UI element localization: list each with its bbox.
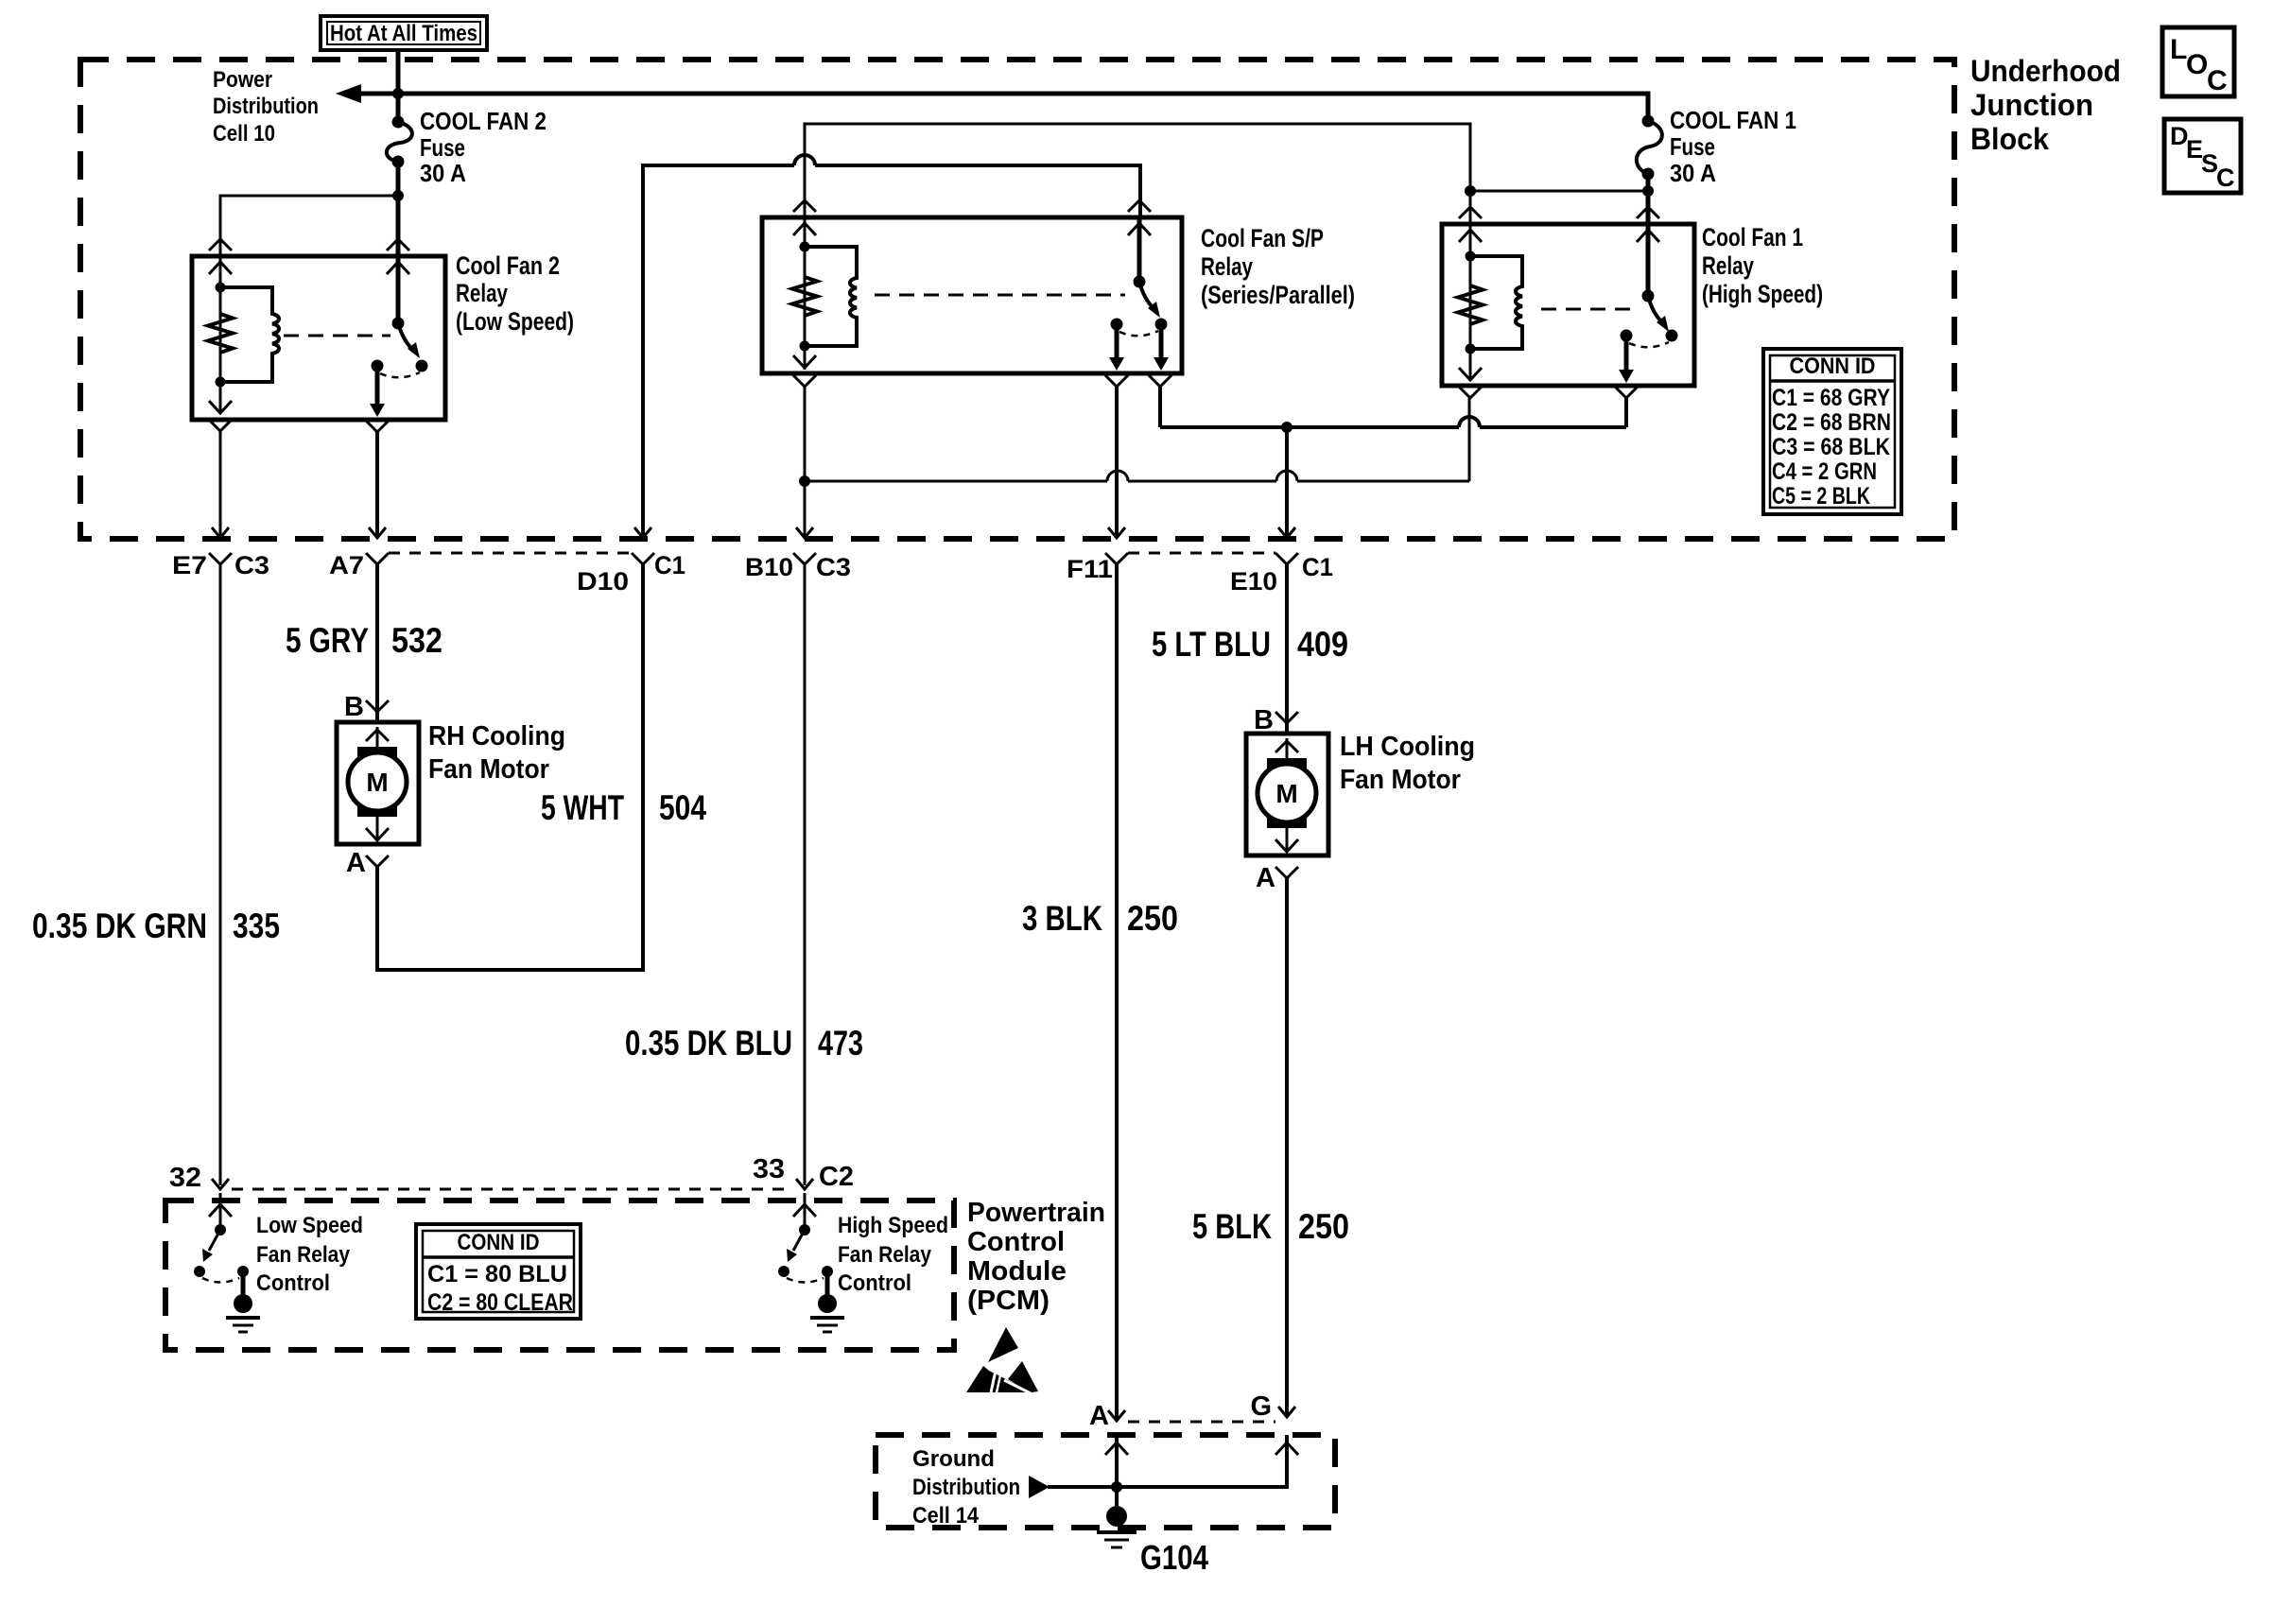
node: PCM high switch open contact	[778, 1266, 789, 1277]
connector glyph below relay1 switch output	[1615, 387, 1638, 398]
wire: B10 run to PCM pin 33	[804, 564, 807, 1185]
switch arm S/P	[1139, 282, 1154, 309]
node: junction dot at hot feed and bus	[392, 88, 404, 99]
pin arrow inside relay2 switch input	[387, 262, 409, 274]
wire: E10 drop from bus A to block edge	[1285, 427, 1289, 536]
dashed throw arc PCM low	[202, 1278, 239, 1283]
ground: PCM low speed internal ground	[226, 1294, 260, 1332]
fuse F1: COOL FAN 1 Fuse 30 A	[1637, 115, 1662, 181]
motor M1: RH Cooling Fan Motor	[337, 722, 419, 844]
svg-text:504: 504	[659, 788, 706, 827]
pin arrow inside ground box A	[1105, 1443, 1128, 1455]
svg-text:C2 = 80 CLEAR: C2 = 80 CLEAR	[427, 1289, 573, 1316]
wire: S/P switch common inside	[1137, 217, 1142, 282]
svg-text:A: A	[1089, 1401, 1109, 1431]
svg-text:E10: E10	[1230, 567, 1277, 596]
svg-text:COOL FAN 2: COOL FAN 2	[420, 107, 547, 135]
switch arm PCM high speed driver	[793, 1230, 805, 1251]
connector dashed line pin A to pin G	[1128, 1421, 1275, 1424]
svg-text:Control: Control	[967, 1227, 1065, 1257]
svg-text:(High Speed): (High Speed)	[1702, 280, 1823, 308]
svg-text:D10: D10	[577, 567, 629, 596]
switch arm arrowhead relay1	[1657, 316, 1669, 332]
svg-text:409: 409	[1297, 625, 1348, 664]
wire: S/P right output with arrow	[1159, 324, 1164, 360]
node: bus B junction at B10	[799, 475, 810, 487]
svg-text:Block: Block	[1970, 122, 2049, 156]
svg-text:M: M	[1275, 779, 1297, 808]
switch arm arrowhead relay2	[408, 342, 420, 358]
svg-text:5 LT BLU: 5 LT BLU	[1152, 625, 1271, 664]
node: relay1 switch pivot	[1642, 290, 1655, 302]
connector glyph at RH motor A	[366, 855, 389, 867]
svg-text:Junction: Junction	[1970, 88, 2093, 122]
node: relay1 output contact	[1621, 330, 1633, 342]
legend box LOC	[2162, 27, 2234, 96]
pin arrow inside relay2 coil output	[209, 401, 232, 413]
wire: RH motor A loop to D10	[377, 564, 643, 970]
wire hop: bus B over F11	[1107, 471, 1128, 481]
svg-text:C2: C2	[819, 1162, 854, 1192]
svg-text:Hot At All Times: Hot At All Times	[330, 21, 477, 46]
svg-text:473: 473	[818, 1024, 863, 1063]
arrowhead at block edge F11	[1108, 527, 1125, 538]
connector glyph above S/P coil pin	[793, 200, 816, 212]
ground G104 symbol	[1097, 1506, 1136, 1547]
dashed throw arc S/P	[1119, 331, 1158, 336]
arrowhead at block edge E7	[212, 527, 229, 538]
wire: PCM low ground stem	[241, 1271, 246, 1297]
svg-text:C3 = 68 BLK: C3 = 68 BLK	[1772, 434, 1890, 460]
wire: fuse 2 output down to relay	[396, 162, 401, 256]
wire: power distribution bus y=103 to COOL FAN 1 fuse	[343, 94, 1648, 119]
svg-text:(PCM): (PCM)	[967, 1286, 1050, 1316]
wire: S/P coil branch inside	[804, 217, 807, 370]
connector glyph above relay2 switch pin	[387, 239, 409, 251]
legend table: CONN ID underhood	[1763, 349, 1901, 514]
wire: E10 to LH motor terminal B	[1285, 564, 1289, 734]
arrowhead at ground pin G	[1278, 1407, 1295, 1417]
svg-text:A: A	[1256, 863, 1275, 893]
resistor: S/P coil suppression resistor	[792, 277, 817, 316]
wire: PCM high ground stem	[825, 1271, 830, 1297]
svg-text:CONN ID: CONN ID	[1790, 354, 1876, 379]
svg-text:M: M	[366, 768, 388, 797]
svg-text:Distribution: Distribution	[912, 1475, 1020, 1500]
power flag: Hot At All Times box	[321, 16, 487, 50]
bus A: S/P output to relay1 output	[1160, 425, 1626, 429]
svg-text:RH Cooling: RH Cooling	[428, 721, 565, 752]
connector dashed line A7 to D10	[389, 552, 632, 555]
wire: S/P left output with arrow	[1115, 324, 1119, 360]
dashed actuator link S/P	[875, 294, 1125, 297]
arrowhead at block edge A7	[369, 527, 386, 538]
arrow from Ground Distribution Cell 14	[1029, 1476, 1050, 1498]
svg-text:Cell 10: Cell 10	[213, 121, 275, 147]
svg-text:C1 = 80 BLU: C1 = 80 BLU	[427, 1261, 567, 1287]
wire hop: rail y=175 hops over S/P coil wire	[794, 155, 815, 165]
pin arrow inside PCM pin 33	[793, 1204, 816, 1217]
svg-text:30 A: 30 A	[1670, 159, 1716, 187]
svg-text:G: G	[1250, 1391, 1272, 1422]
connector glyph above S/P switch pin	[1128, 200, 1151, 212]
svg-text:C2 = 68 BRN: C2 = 68 BRN	[1772, 409, 1891, 436]
wire: ground G stem and crossbar	[1048, 1435, 1287, 1487]
fuse F2: COOL FAN 2 Fuse 30 A	[387, 116, 412, 168]
switch arm arrowhead S/P	[1148, 302, 1160, 318]
wire: B10 drop from S/P coil to block edge	[804, 387, 807, 536]
connector glyph A7 below block	[366, 553, 389, 564]
wire: A7 drop from relay2 switch to block edge	[375, 432, 379, 536]
node: PCM high speed switch pivot	[799, 1224, 810, 1235]
connector glyph at LH motor B	[1275, 712, 1298, 723]
switch arm arrowhead PCM high	[787, 1249, 797, 1262]
svg-text:Cool Fan S/P: Cool Fan S/P	[1201, 224, 1324, 252]
arrowhead at PCM pin 33	[796, 1179, 813, 1189]
resistor: relay2 coil suppression resistor	[208, 314, 233, 353]
svg-text:5 GRY: 5 GRY	[286, 621, 369, 660]
wire hop: bus B over E10	[1276, 471, 1297, 481]
svg-text:Relay: Relay	[1702, 251, 1754, 280]
wire: relay2 coil branch inside	[219, 256, 222, 413]
arrowhead at block edge B10	[796, 527, 813, 538]
connector glyph above relay2 coil pin	[209, 239, 232, 251]
connector glyph at LH motor A	[1275, 867, 1298, 878]
svg-text:C3: C3	[234, 551, 269, 579]
svg-text:250: 250	[1298, 1207, 1349, 1246]
wire: S/P moving contact down to bus A	[1158, 387, 1162, 427]
connector glyph below S/P right output	[1149, 375, 1171, 387]
svg-text:C: C	[2207, 65, 2228, 96]
wire: relay1 switch common inside	[1646, 224, 1651, 296]
node: relay1 coil bottom dot	[1466, 344, 1476, 354]
svg-text:F11: F11	[1067, 555, 1113, 583]
pin arrow inside S/P coil output	[793, 355, 816, 368]
node: ground crossbar junction	[1111, 1481, 1122, 1493]
pin arrow inside S/P coil input	[793, 223, 816, 235]
dashed throw arc relay2	[380, 372, 420, 377]
connector glyph below relay2 coil output	[209, 420, 232, 431]
svg-text:Fuse: Fuse	[420, 133, 465, 162]
switch arm relay1	[1648, 296, 1663, 323]
svg-text:C1: C1	[654, 551, 685, 579]
svg-text:L: L	[2170, 34, 2187, 65]
node: relay1 coil top dot	[1466, 251, 1476, 262]
node: relay2 moving contact	[416, 360, 428, 372]
node: S/P output contact left	[1111, 319, 1123, 331]
wire: relay 1 coil feed down	[1469, 191, 1472, 224]
relay K3: Cool Fan S/P Relay box	[762, 217, 1182, 373]
svg-text:A7: A7	[329, 551, 364, 579]
svg-text:Powertrain: Powertrain	[967, 1198, 1105, 1228]
svg-text:32: 32	[169, 1163, 201, 1193]
svg-text:Ground: Ground	[912, 1446, 995, 1472]
svg-text:C4 = 2 GRN: C4 = 2 GRN	[1772, 458, 1877, 485]
svg-text:Cool Fan 1: Cool Fan 1	[1702, 223, 1803, 251]
svg-text:A: A	[346, 848, 366, 878]
node: bus A junction to E10	[1281, 422, 1293, 433]
connector glyph above relay1 coil pin	[1459, 207, 1482, 218]
pin arrow inside relay2 coil input	[209, 262, 232, 274]
wire: relay1 output down to bus A	[1624, 398, 1628, 427]
wire: relay2 switch common inside	[396, 256, 401, 323]
svg-text:Underhood: Underhood	[1970, 54, 2121, 88]
wire: PCM high speed driver stub	[804, 1193, 807, 1230]
svg-text:Distribution: Distribution	[213, 94, 319, 119]
switch arm relay2	[398, 323, 414, 351]
svg-text:E7: E7	[172, 551, 207, 579]
dashed actuator link relay1	[1541, 308, 1636, 311]
connector glyph above relay1 switch pin	[1637, 207, 1659, 218]
arrowhead at block edge E10	[1278, 527, 1295, 538]
svg-text:Relay: Relay	[456, 279, 508, 307]
wire: branch to relay 2 coil	[220, 196, 398, 256]
connector glyph F11 below block	[1105, 553, 1128, 564]
wire: relay1 coil drop to bus B	[1468, 398, 1471, 481]
pin arrow inside relay1 coil input	[1459, 230, 1482, 242]
svg-text:Control: Control	[838, 1270, 911, 1296]
node: junction dot at 1743,202	[1642, 185, 1654, 197]
node: relay2 coil bottom dot	[216, 377, 226, 388]
svg-text:B: B	[1254, 705, 1274, 735]
junction block: Underhood Junction Block dashed boundary	[80, 60, 1954, 539]
wire hop: bus A over relay1 coil drop	[1459, 417, 1480, 427]
dashed actuator link relay2	[284, 335, 390, 337]
svg-text:(Series/Parallel): (Series/Parallel)	[1201, 281, 1355, 309]
svg-text:G104: G104	[1140, 1538, 1208, 1577]
wire: D10 riser and rail y=175 to S/P switch	[643, 165, 1140, 535]
wire: relay1 coil branch inside	[1469, 224, 1472, 380]
svg-text:Fan Relay: Fan Relay	[838, 1242, 932, 1268]
node: S/P moving contact right	[1155, 319, 1168, 331]
svg-text:Relay: Relay	[1201, 252, 1253, 281]
wire: A7 to RH motor terminal B	[375, 564, 379, 722]
svg-text:Fan Motor: Fan Motor	[1340, 765, 1461, 795]
node: S/P switch pivot	[1134, 276, 1146, 288]
svg-text:O: O	[2186, 49, 2208, 80]
wire: E7 run to PCM pin 32	[219, 564, 222, 1185]
svg-text:Module: Module	[967, 1256, 1067, 1287]
svg-text:C5 = 2 BLK: C5 = 2 BLK	[1772, 483, 1870, 510]
svg-text:Low Speed: Low Speed	[256, 1213, 363, 1238]
legend table: CONN ID PCM	[416, 1224, 581, 1319]
connector glyph below S/P coil output	[793, 375, 816, 387]
node: PCM high switch ground contact	[822, 1266, 833, 1277]
inductor: S/P coil winding	[805, 247, 857, 346]
inductor: relay2 coil winding	[220, 287, 279, 382]
svg-text:CONN ID: CONN ID	[458, 1230, 540, 1255]
switch arm PCM low speed driver	[209, 1230, 220, 1251]
pin arrow inside S/P switch input	[1128, 223, 1151, 235]
motor M2: LH Cooling Fan Motor	[1246, 734, 1328, 855]
node: PCM low speed switch pivot	[215, 1224, 226, 1235]
svg-text:COOL FAN 1: COOL FAN 1	[1670, 106, 1796, 134]
wire: ground A stem to G104	[1115, 1437, 1119, 1507]
svg-text:33: 33	[753, 1154, 785, 1184]
connector dashed line pin32 to pin33	[232, 1188, 793, 1191]
pin arrow inside ground box G	[1275, 1443, 1298, 1455]
svg-text:Cool Fan 2: Cool Fan 2	[456, 251, 560, 280]
svg-text:5 WHT: 5 WHT	[541, 788, 624, 827]
node: relay1 moving contact	[1666, 330, 1678, 342]
inductor: relay1 coil winding	[1470, 256, 1522, 349]
svg-text:5 BLK: 5 BLK	[1192, 1207, 1272, 1246]
relay K2: Cool Fan 2 Relay (Low Speed) box	[192, 256, 445, 420]
svg-text:Fan Motor: Fan Motor	[428, 754, 549, 785]
relay K1: Cool Fan 1 Relay (High Speed) box	[1442, 224, 1694, 386]
svg-text:High Speed: High Speed	[838, 1213, 948, 1238]
svg-text:Control: Control	[256, 1270, 330, 1296]
bus B: S/P coil and relay1 coil to B10	[805, 480, 1469, 483]
svg-text:30 A: 30 A	[420, 159, 466, 187]
connector glyph below relay2 switch output	[366, 421, 389, 432]
svg-text:Power: Power	[213, 67, 272, 93]
node: PCM low switch open contact	[194, 1266, 205, 1277]
connector glyph B10 below block	[793, 553, 816, 564]
svg-text:B10: B10	[745, 553, 793, 581]
node: junction dot at 1555,202	[1465, 185, 1476, 197]
module: Powertrain Control Module dashed boundary	[165, 1201, 954, 1350]
node: PCM low switch ground contact	[237, 1266, 249, 1277]
svg-text:0.35 DK GRN: 0.35 DK GRN	[32, 907, 207, 945]
wire: F11 drop from S/P left output to block edge	[1115, 387, 1119, 536]
svg-text:C1 = 68 GRY: C1 = 68 GRY	[1772, 385, 1890, 411]
node: S/P coil bottom dot	[800, 341, 810, 352]
ground: PCM high speed internal ground	[810, 1294, 844, 1332]
wire: F11 ground run to PCM pin A	[1115, 564, 1119, 1421]
node: S/P coil top dot	[800, 242, 810, 252]
node: junction dot fuse2 output branch	[392, 190, 404, 201]
svg-text:Fan Relay: Fan Relay	[256, 1242, 351, 1268]
connector glyph D10 below block	[632, 553, 654, 564]
connector glyph E10 below block	[1275, 553, 1298, 564]
wire: E7 drop from relay2 coil to block edge	[219, 431, 222, 536]
wire: battery feed from Hot At All Times down to junction	[396, 50, 401, 120]
connector dashed line F11 to E10	[1128, 552, 1275, 555]
wire: fuse 1 output to relay 1 switch	[1646, 174, 1651, 224]
svg-text:C1: C1	[1302, 553, 1333, 581]
arrowhead at block edge D10	[634, 527, 651, 538]
pin arrow inside PCM pin 32	[209, 1204, 232, 1217]
node: relay2 output contact	[372, 360, 384, 372]
svg-text:B: B	[344, 692, 364, 722]
svg-text:(Low Speed): (Low Speed)	[456, 307, 574, 336]
svg-text:532: 532	[391, 621, 442, 660]
wire: rail y=202 between relay1 coil and switch feeds	[1470, 190, 1648, 193]
wire: relay2 switch output with arrow	[375, 366, 380, 406]
node: relay2 coil top dot	[216, 283, 226, 293]
ESD sensitivity symbol	[966, 1327, 1038, 1393]
arrow to Power Distribution Cell 10	[336, 84, 361, 103]
switch arm arrowhead PCM low	[202, 1249, 213, 1262]
svg-text:LH Cooling: LH Cooling	[1340, 732, 1475, 762]
connector glyph E7 below block	[209, 553, 232, 564]
svg-text:C3: C3	[816, 553, 851, 581]
legend box DESC	[2164, 119, 2241, 193]
arrowhead at ground pin A	[1108, 1410, 1125, 1421]
wire: feed up and across to Cool Fan S/P relay coil	[805, 124, 1470, 217]
dashed throw arc PCM high	[787, 1278, 824, 1283]
connector glyph below relay1 coil output	[1459, 387, 1482, 398]
pin arrow inside relay1 switch input	[1637, 230, 1659, 242]
svg-text:C: C	[2216, 164, 2235, 192]
connector glyph at RH motor B	[366, 700, 389, 712]
module: Ground Distribution dashed boundary	[876, 1435, 1335, 1528]
connector glyph below S/P left output	[1105, 375, 1128, 387]
svg-text:335: 335	[233, 907, 280, 945]
dashed throw arc relay1	[1629, 342, 1669, 347]
svg-text:0.35 DK BLU: 0.35 DK BLU	[625, 1024, 792, 1063]
pin arrow inside relay1 coil output	[1459, 368, 1482, 380]
wire: PCM low speed driver stub	[219, 1193, 222, 1230]
wire: relay1 switch output with arrow	[1624, 336, 1629, 372]
wire: LH motor A ground run to PCM pin G	[1285, 878, 1289, 1417]
svg-text:3 BLK: 3 BLK	[1022, 899, 1102, 938]
resistor: relay1 coil suppression resistor	[1458, 285, 1483, 324]
node: relay2 switch pivot	[392, 318, 405, 330]
arrowhead at PCM pin 32	[212, 1179, 229, 1189]
svg-text:250: 250	[1127, 899, 1178, 938]
svg-text:Cell 14: Cell 14	[912, 1503, 980, 1529]
svg-text:Fuse: Fuse	[1670, 132, 1715, 161]
